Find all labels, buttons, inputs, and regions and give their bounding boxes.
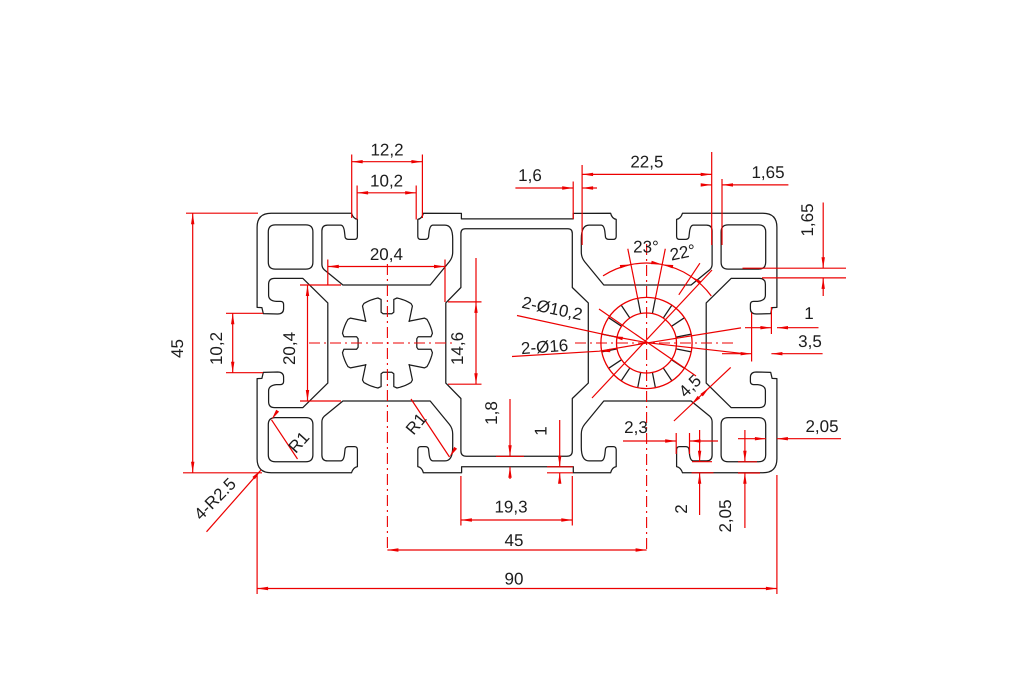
dim 1.65 right side <box>822 203 824 269</box>
dim 2.3 bottom right <box>623 440 676 442</box>
svg-text:45: 45 <box>505 531 524 550</box>
dim 4.5 diagonal <box>674 367 731 421</box>
dim 1 right side <box>760 326 771 329</box>
dim 12.2 top <box>352 161 423 163</box>
dim 1 bottom middle <box>559 420 561 467</box>
corner square hole bottom-right <box>721 418 766 462</box>
dim 45 left <box>192 213 194 473</box>
leader 2-D10.2 <box>517 316 741 354</box>
leader 4-R2.5 <box>207 470 262 532</box>
svg-text:23°: 23° <box>633 238 659 257</box>
svg-text:1: 1 <box>532 426 551 435</box>
dim 2.05 right (square hole wall) <box>738 438 766 440</box>
svg-text:2,05: 2,05 <box>805 417 838 436</box>
svg-text:20,4: 20,4 <box>280 332 299 365</box>
dim 20.4 horizontal <box>328 266 445 268</box>
dim 10.2 left edge <box>232 313 234 372</box>
right bore circle D16 <box>601 297 692 388</box>
central channel cavity <box>446 229 589 457</box>
centerline horizontal right bore <box>575 342 735 344</box>
svg-text:12,2: 12,2 <box>370 141 403 160</box>
angle dim radial 101deg <box>628 249 638 300</box>
dim 22.5 top <box>582 173 712 175</box>
dim 19.3 bottom <box>461 519 572 521</box>
dim 1.65 top <box>701 183 712 186</box>
angle dim radial 56deg <box>679 263 700 295</box>
leader R1 channel floor <box>411 399 450 457</box>
svg-text:2-Ø16: 2-Ø16 <box>520 336 568 358</box>
centerline vertical left bore <box>386 264 388 551</box>
svg-text:10,2: 10,2 <box>207 332 226 365</box>
dim 20.4 vertical <box>307 285 309 401</box>
corner square hole top-left <box>268 225 313 269</box>
right bore spokes <box>602 298 692 387</box>
dim 1.6 top <box>515 187 573 189</box>
svg-text:1,65: 1,65 <box>798 203 817 236</box>
svg-text:1,8: 1,8 <box>482 401 501 425</box>
dim 45 bottom <box>387 549 646 551</box>
svg-text:20,4: 20,4 <box>370 245 403 264</box>
dim 3.5 right side <box>741 352 752 355</box>
svg-text:10,2: 10,2 <box>370 172 403 191</box>
right bore 45deg diagonal NE-SW <box>592 270 712 398</box>
svg-text:2: 2 <box>672 504 691 513</box>
svg-text:2,3: 2,3 <box>624 418 648 437</box>
right bore 45deg diagonal NW-SE <box>599 309 696 376</box>
svg-text:1,6: 1,6 <box>518 166 542 185</box>
dim 2.05 bottom right rotated <box>744 430 746 462</box>
right bore circle D10.2 <box>617 313 677 373</box>
splined center bore (gear) of left block <box>343 298 433 388</box>
dim 2 bottom right rotated <box>699 430 701 462</box>
svg-text:1,65: 1,65 <box>751 163 784 182</box>
profile outer boundary with T-slots <box>257 213 777 473</box>
leader 2-D16 <box>512 328 741 357</box>
dim 1.8 bottom middle <box>509 399 511 456</box>
dim 14.6 <box>475 258 477 302</box>
svg-text:3,5: 3,5 <box>798 332 822 351</box>
svg-text:22,5: 22,5 <box>630 153 663 172</box>
dim 90 bottom <box>257 588 777 590</box>
corner square hole bottom-left <box>268 418 313 462</box>
leader R1 square hole <box>272 420 298 459</box>
corner square hole top-right <box>721 225 766 269</box>
svg-text:2,05: 2,05 <box>716 499 735 532</box>
angle dimension arc <box>603 263 711 296</box>
svg-text:19,3: 19,3 <box>494 498 527 517</box>
svg-text:45: 45 <box>168 339 187 358</box>
centerline vertical right bore <box>646 244 648 551</box>
angle dim radial 79deg <box>655 249 665 300</box>
svg-text:1: 1 <box>804 304 813 323</box>
svg-text:90: 90 <box>505 570 524 589</box>
angle arc arrows <box>620 265 631 269</box>
svg-text:14,6: 14,6 <box>448 332 467 365</box>
dim 10.2 top <box>357 192 416 194</box>
centerline horizontal left bore <box>309 342 456 344</box>
